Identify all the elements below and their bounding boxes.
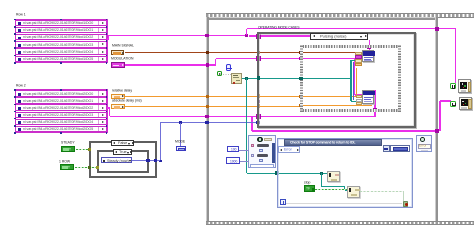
wire drop to node1 — [455, 29, 457, 84]
label relative delay — [112, 89, 132, 93]
label MODULATION — [111, 57, 133, 61]
wire 100 to input node — [239, 150, 248, 151]
inner case selector True — [113, 149, 132, 155]
shared variable constant row1-1 — [15, 27, 107, 34]
tunnel pink on sequence bottom border — [373, 108, 377, 112]
faint link dashes — [223, 73, 231, 76]
tunnel pink on sequence top border — [367, 45, 371, 49]
faint bottom rail — [286, 202, 402, 205]
tunnel blue outer case — [154, 159, 157, 162]
wire row1 into case structure — [249, 35, 312, 37]
wire branch under case to node2 (pink) — [251, 116, 253, 130]
timed loop left data node — [278, 146, 300, 153]
tunnel row2 pink on loop border — [205, 115, 209, 119]
op icon2 square-wave VI — [362, 90, 374, 104]
tunnel bottom pink on right loop border — [435, 129, 439, 133]
op icon1 square-wave VI — [362, 50, 374, 62]
wire stop (green dashed) — [315, 189, 348, 190]
label MAIN SIGNAL — [112, 44, 134, 48]
while loop top marching ants — [206, 12, 474, 15]
tunnel blue selector on case border — [256, 121, 260, 125]
tunnel row1 wire on while loop border — [205, 34, 209, 38]
boolean stop — [304, 185, 315, 192]
wire relative delay (orange) — [125, 96, 357, 97]
wire drop from selector to sequence/icon1 — [369, 40, 371, 51]
wire blue t0 between icons — [353, 62, 354, 101]
wire riser to icon1 cells — [356, 68, 357, 97]
wire MODE enum (blue) — [160, 122, 258, 123]
tunnel 1row inner case — [96, 166, 99, 169]
numeric constant 100 — [227, 146, 239, 152]
flat sequence left border — [300, 45, 303, 112]
node2 display icon — [459, 97, 472, 110]
label Row 2 — [16, 84, 26, 88]
tunnel 1row outer case — [88, 166, 91, 169]
wire absolute delay (orange) — [125, 106, 301, 107]
numeric constant relative delay — [111, 94, 125, 99]
shared variable constant row2-2 — [15, 104, 107, 110]
wire nodeB to stop terminal (faint) — [360, 190, 403, 193]
junction teal — [245, 77, 248, 80]
shared variable constant row1-5 — [15, 56, 107, 63]
wire row2 array (pink) — [107, 107, 110, 109]
ring constant MODULATION — [111, 62, 125, 68]
junction blue branch to MODE terminal — [179, 121, 182, 124]
wire row2 inside case to icon2 — [261, 116, 376, 118]
label OPERATING MODE CASES — [258, 26, 299, 30]
wire teal down to timed loop — [246, 78, 248, 173]
label Row 1 — [16, 13, 26, 17]
input cells column icon1 — [355, 52, 361, 55]
tunnel steady on outer case — [88, 148, 91, 151]
junction blue at case output — [159, 160, 162, 163]
tunnel teal on case border — [257, 76, 261, 80]
boolean constant STEADY — [61, 146, 75, 152]
extra violet tunnel on case border — [257, 100, 260, 103]
label absolute delay (ms) — [112, 99, 142, 103]
shared variable constant row2-4 — [15, 119, 107, 125]
constant green arrow box — [217, 71, 223, 76]
junction row1 wire — [245, 34, 248, 37]
tunnel top pink on right loop border — [435, 27, 439, 31]
tunnel teal on timed loop border — [275, 171, 279, 175]
case structure border — [257, 32, 416, 129]
timed loop [1] node bottom-left — [280, 199, 286, 205]
tunnel teal on sequence border — [299, 77, 302, 80]
input cells column icon2 — [356, 95, 362, 98]
wire STEADY (green dashed) — [76, 149, 91, 150]
wire teal inside case — [242, 78, 352, 79]
selection handles row2 — [14, 89, 16, 91]
timed loop border — [277, 138, 413, 208]
shared variable constant row1-2 — [15, 34, 107, 41]
shared variable constant row1-3 — [15, 41, 107, 48]
label MODE — [175, 140, 185, 144]
flat sequence top border — [300, 45, 402, 48]
wire outside riser to node2 — [439, 101, 441, 131]
wire enum out (blue) — [132, 160, 160, 161]
label STEADY — [61, 141, 75, 145]
wait-node tan box — [231, 73, 242, 85]
junction teal inside timed loop — [320, 172, 323, 175]
wire row1 array to node1/case (pink) — [107, 38, 109, 40]
shared variable constant row2-3 — [15, 112, 107, 118]
tunnel pink on case left border — [256, 34, 261, 39]
metronome blue glyph — [226, 64, 231, 71]
numeric constant 1000 — [226, 157, 240, 164]
wire top run above case to node1 — [247, 28, 457, 30]
while loop top border — [206, 17, 439, 19]
wire modulation drop to icon2 — [354, 59, 356, 95]
label 1 ROW — [59, 160, 70, 164]
wire teal riser between icons — [350, 60, 352, 101]
wire MAIN SIGNAL (brown) — [125, 52, 363, 54]
shared variable constant row2-0 — [15, 90, 107, 96]
enum constant Steady (now) — [101, 157, 133, 163]
local variable MODE — [176, 146, 186, 152]
shared variable constant row2-1 — [15, 97, 107, 103]
inner case structure (True) — [97, 150, 149, 173]
wire 1000 to input node — [240, 161, 248, 162]
timed loop stop terminal (red) — [403, 201, 408, 206]
tunnel row2 pink on case border — [256, 114, 261, 119]
wire 1 ROW (green dashed) — [75, 167, 98, 168]
comparison node A — [327, 171, 339, 181]
node2 type-cast green box — [450, 101, 456, 107]
outer case structure (False) — [89, 141, 157, 178]
while loop left border — [206, 17, 209, 220]
shared variable constant row1-4 — [15, 48, 107, 55]
junction stop wire — [312, 188, 314, 190]
while loop right border — [435, 17, 438, 220]
shared variable constant row2-5 — [15, 126, 107, 132]
case selector 'Pulsing (noise)' — [310, 33, 368, 40]
timed loop right header box — [383, 145, 390, 152]
timed loop input node — [248, 135, 276, 168]
shared variable constant row1-0 — [15, 20, 107, 27]
comparison node B — [347, 186, 360, 197]
wire MODULATION (pink) — [125, 64, 216, 66]
boolean constant 1 ROW — [60, 164, 74, 170]
label stop — [304, 181, 310, 185]
flat sequence bottom border — [300, 109, 402, 112]
outer frame row2 — [15, 89, 108, 133]
numeric constant absolute delay — [111, 104, 125, 109]
tunnel blue on loop border — [205, 121, 209, 125]
enum constant MAIN SIGNAL — [111, 50, 125, 55]
wire riser to top run — [246, 29, 248, 36]
timed loop title bar — [284, 139, 382, 145]
tunnel blue inner case — [146, 159, 149, 162]
flat sequence right border — [398, 45, 401, 112]
outer frame row1 — [15, 19, 108, 63]
while loop bottom border + marching ants — [206, 220, 474, 223]
node1 display icon — [458, 79, 471, 92]
timed loop output node — [416, 135, 432, 152]
outer case selector False — [111, 140, 134, 146]
node1 type-cast green box — [450, 83, 456, 89]
selection handles row1 — [14, 19, 16, 21]
